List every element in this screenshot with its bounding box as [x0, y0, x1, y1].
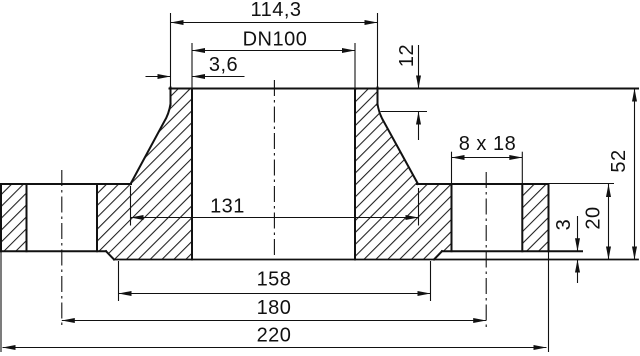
bolt hole centerline left (extension for 180): [61, 170, 63, 329]
bore wall left: [191, 89, 193, 260]
arrow 3 upper: [575, 238, 580, 251]
centerlines dash-dot: [62, 80, 486, 329]
dim line 20: [608, 184, 610, 260]
arrow 8x18 left: [452, 155, 465, 160]
arrow 131 left: [131, 215, 144, 220]
bolt hole left: left edge: [26, 184, 28, 251]
dim line 12 lower tail: [418, 112, 420, 141]
arrow 220 right: [534, 345, 547, 350]
hatched section: left outer sliver of flange: [1, 184, 27, 251]
svg-text:12: 12: [396, 44, 418, 67]
arrow 158 right: [418, 291, 431, 296]
dim line 131: [131, 217, 419, 219]
neck outer wall left: [170, 88, 172, 106]
extension line 12 (taper start level): [381, 111, 428, 113]
extension line 220 right (flange edge extended): [548, 251, 550, 352]
main vertical centerline: [273, 80, 275, 259]
arrow 20 bottom: [606, 247, 611, 260]
arrow 12 lower: [416, 112, 421, 125]
dim line 3,6 right tail: [192, 76, 245, 78]
flange top face right: [417, 183, 549, 185]
dim line 220: [3, 347, 547, 349]
raised face chamfer right: [434, 251, 442, 259]
bolt hole right: left edge: [451, 184, 453, 251]
extension line 131 right: [418, 188, 420, 226]
extension line 158 right: [430, 261, 432, 301]
dim line 158: [119, 293, 431, 295]
arrow 8x18 right: [509, 155, 522, 160]
svg-text:131: 131: [210, 196, 245, 218]
flange outer edge left: [0, 184, 2, 251]
svg-text:3: 3: [553, 219, 575, 231]
arrow 180 right: [473, 318, 486, 323]
svg-text:20: 20: [583, 206, 605, 229]
hub taper left: [131, 104, 171, 184]
svg-text:DN100: DN100: [243, 29, 308, 51]
svg-text:220: 220: [257, 325, 292, 347]
flange bottom face right (extends right as extension for 3 dim): [442, 250, 582, 252]
arrow 220 left: [3, 345, 16, 350]
extension line 131 left: [130, 186, 132, 226]
arrow 20 top: [606, 184, 611, 197]
hatched section: right hub + flange piece: [355, 89, 451, 260]
arrow 114,3 right: [365, 20, 378, 25]
arrow 180 left: [62, 318, 75, 323]
svg-text:8 x 18: 8 x 18: [459, 133, 516, 155]
arrow 12 upper: [416, 76, 421, 89]
dim line 180: [62, 320, 486, 322]
extension line 158 left: [118, 261, 120, 301]
hatched section: left hub + flange piece: [97, 89, 192, 260]
neck top face line (extends right as extension for 12/52 dims): [170, 88, 639, 90]
dim line 3 lower tail: [577, 260, 579, 284]
bolt hole right: right edge: [521, 184, 523, 251]
extension line DN100 right: [354, 43, 356, 88]
extension line 20 (flange top face extended): [549, 183, 615, 185]
arrow DN100 left: [192, 48, 205, 53]
flange top face left: [0, 183, 131, 185]
arrow 3,6 right: [192, 74, 205, 79]
svg-text:3,6: 3,6: [209, 54, 238, 76]
extension line 114,3 right: [377, 13, 379, 88]
extension line 114,3 left: [170, 13, 172, 88]
hub taper right: [378, 104, 419, 184]
arrow 52 top: [632, 89, 637, 102]
dim line 8x18: [451, 157, 522, 159]
neck outer wall right: [377, 88, 379, 106]
flange bottom face left: [0, 250, 106, 252]
extension line 220 left (flange edge extended): [0, 251, 2, 352]
dim line 3 upper tail: [577, 216, 579, 251]
svg-text:52: 52: [608, 149, 630, 172]
bolt hole centerline right (extension for 180): [485, 172, 487, 329]
svg-text:114,3: 114,3: [250, 0, 301, 21]
arrow DN100 right: [342, 48, 355, 53]
arrow 52 bottom: [632, 247, 637, 260]
arrow 131 right: [406, 215, 419, 220]
bore wall right: [354, 89, 356, 260]
arrow 3 lower: [575, 260, 580, 273]
dim line 52: [634, 89, 636, 260]
arrow 3,6 left: [158, 74, 171, 79]
arrow 114,3 left: [171, 20, 184, 25]
flange outer edge right: [548, 184, 550, 251]
extension line DN100 left: [191, 43, 193, 88]
extension line 8x18 left: [451, 152, 453, 184]
hatched section: right outer sliver of flange: [522, 184, 548, 251]
raised face chamfer left: [106, 251, 114, 259]
dim line 114,3: [171, 22, 378, 24]
dim line DN100: [192, 50, 355, 52]
raised face bottom line (extends right as extension for 3/20/52 dims): [114, 259, 638, 261]
svg-text:180: 180: [257, 297, 292, 319]
dim line 3,6 left tail: [146, 76, 171, 78]
extension line 8x18 right: [521, 152, 523, 184]
svg-text:158: 158: [257, 269, 292, 291]
dim line 12 upper tail: [418, 45, 420, 89]
arrow 158 left: [119, 291, 132, 296]
bolt hole left: right edge: [96, 184, 98, 251]
object lines: [0, 88, 638, 260]
